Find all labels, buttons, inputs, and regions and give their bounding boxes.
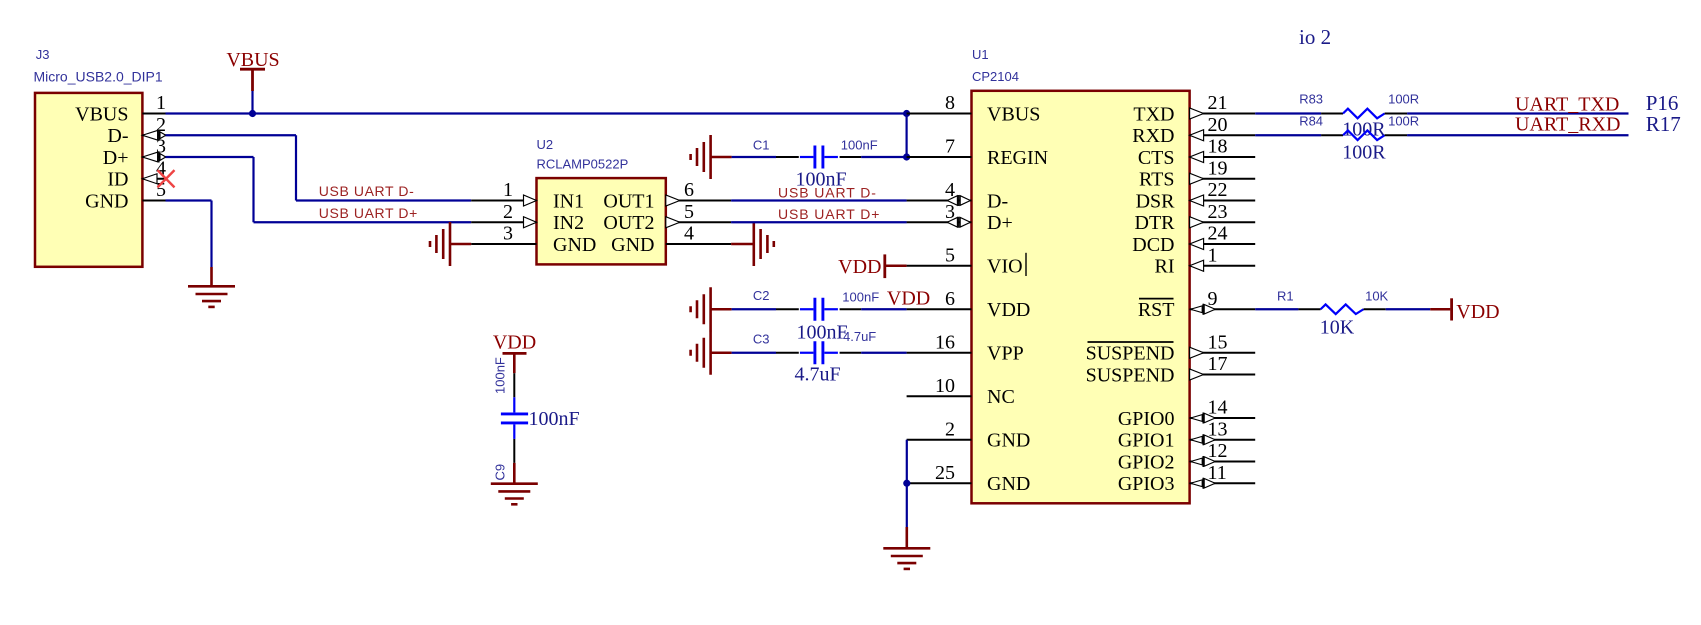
wire USB_UART_D+ U2.5 to U1.3 (731, 221, 907, 223)
svg-text:RCLAMP0522P: RCLAMP0522P (537, 157, 629, 172)
svg-text:VDD: VDD (493, 332, 536, 354)
svg-text:GND: GND (611, 234, 654, 256)
wire UART_RXD (1407, 134, 1628, 136)
power port VDD at U1 VIO (838, 254, 906, 278)
U1 pin 17 SUSPEND (1086, 353, 1256, 386)
ground symbol for C2 (709, 287, 712, 331)
U2 pin 1 IN1 (471, 179, 584, 212)
svg-text:100nF: 100nF (842, 290, 879, 305)
svg-text:100R: 100R (1388, 113, 1419, 128)
U2 pin 4 GND (611, 223, 731, 256)
U2 pin 3 GND (471, 223, 596, 256)
svg-text:2: 2 (503, 201, 513, 223)
svg-text:U1: U1 (972, 47, 989, 62)
svg-text:12: 12 (1208, 440, 1228, 462)
svg-text:SUSPEND: SUSPEND (1086, 364, 1175, 386)
svg-text:C3: C3 (753, 332, 770, 347)
svg-text:18: 18 (1208, 136, 1228, 158)
svg-text:6: 6 (684, 179, 694, 201)
junction VBUS/pin8 (903, 110, 910, 117)
ground symbol right of U2 pin4 (731, 222, 774, 266)
svg-text:GND: GND (987, 473, 1030, 495)
svg-text:ID: ID (107, 169, 128, 191)
svg-text:R1: R1 (1277, 289, 1294, 304)
svg-text:5: 5 (945, 244, 955, 266)
svg-text:C2: C2 (753, 288, 770, 303)
ground symbol below C9 (491, 463, 538, 504)
U1 pin 4 D- (907, 179, 1009, 212)
svg-text:100R: 100R (1342, 142, 1386, 164)
svg-text:VDD: VDD (887, 288, 930, 310)
U2 pin 6 OUT1 (603, 179, 731, 212)
svg-text:RXD: RXD (1132, 125, 1174, 147)
U1 pin 14 GPIO0 (1118, 397, 1255, 430)
svg-text:4: 4 (945, 179, 955, 201)
capacitor C1 (800, 146, 838, 169)
U1 pin 25 GND (907, 462, 1031, 495)
svg-text:D+: D+ (103, 147, 129, 169)
ESD protection U2 body (537, 178, 666, 264)
svg-text:19: 19 (1208, 157, 1228, 179)
U1 pin 23 DTR (1135, 201, 1256, 234)
no-connect X on J3 pin 4 (158, 170, 175, 187)
U1 pin 1 RI (1155, 244, 1256, 277)
svg-text:10K: 10K (1320, 317, 1355, 339)
U1 pin 2 GND (907, 418, 1031, 451)
text cursor artifact after VIO (1025, 253, 1027, 276)
svg-text:VDD: VDD (987, 299, 1030, 321)
svg-text:6: 6 (945, 288, 955, 310)
svg-text:15: 15 (1208, 331, 1228, 353)
power port VBUS (226, 49, 279, 91)
svg-text:VIO: VIO (987, 256, 1023, 278)
svg-text:DCD: DCD (1132, 234, 1174, 256)
svg-text:Micro_USB2.0_DIP1: Micro_USB2.0_DIP1 (34, 69, 163, 85)
svg-text:io 2: io 2 (1299, 25, 1331, 49)
U1 pin 18 CTS (1138, 136, 1255, 169)
svg-text:CP2104: CP2104 (972, 69, 1019, 84)
svg-text:R83: R83 (1299, 91, 1323, 106)
U1 pin 20 RXD (1132, 114, 1255, 147)
C9 designator (vertical) (493, 464, 508, 481)
svg-text:22: 22 (1208, 179, 1228, 201)
C9 lower pin (513, 439, 515, 463)
svg-text:OUT2: OUT2 (603, 212, 654, 234)
U1 pin 21 TXD (1133, 92, 1255, 125)
svg-text:24: 24 (1208, 223, 1228, 245)
U1 pin 5 VIO (907, 244, 1023, 277)
svg-text:USB UART D-: USB UART D- (319, 183, 415, 199)
svg-text:D-: D- (107, 125, 128, 147)
svg-text:REGIN: REGIN (987, 147, 1048, 169)
wire net D- from J3 pin2 (166, 135, 472, 200)
svg-text:9: 9 (1208, 288, 1218, 310)
ground symbol for C1 (709, 135, 712, 179)
svg-text:UART_RXD: UART_RXD (1515, 114, 1620, 136)
svg-text:3: 3 (503, 223, 513, 245)
U1 pin 19 RTS (1139, 157, 1255, 190)
wire VBUS port drop (251, 91, 253, 114)
junction at VBUS port (249, 110, 256, 117)
U1 pin 12 GPIO2 (1118, 440, 1255, 473)
svg-text:5: 5 (684, 201, 694, 223)
U1 pin 22 DSR (1136, 179, 1256, 212)
svg-text:GND: GND (85, 190, 128, 212)
resistor R1 10K (1298, 304, 1385, 314)
svg-text:VPP: VPP (987, 343, 1024, 365)
svg-text:IN1: IN1 (553, 190, 584, 212)
svg-text:7: 7 (945, 136, 955, 158)
U1 pin 24 DCD (1132, 223, 1255, 256)
wire/pins C3 row to U1 VPP (711, 351, 907, 354)
svg-text:GND: GND (553, 234, 596, 256)
svg-text:100nF: 100nF (841, 138, 878, 153)
svg-text:NC: NC (987, 386, 1015, 408)
svg-text:21: 21 (1208, 92, 1228, 114)
U1 pin 3 D+ (907, 201, 1013, 234)
ground symbol for C3 (709, 331, 712, 375)
U1 pin 16 VPP (907, 331, 1024, 364)
svg-text:14: 14 (1208, 397, 1228, 419)
J3 pin 1 VBUS (75, 92, 166, 125)
junction GND pin25 (903, 480, 910, 487)
svg-text:1: 1 (156, 92, 166, 114)
svg-text:GND: GND (987, 430, 1030, 452)
capacitor C3 (800, 341, 838, 364)
svg-text:RTS: RTS (1139, 169, 1174, 191)
svg-text:2: 2 (156, 114, 166, 136)
U1 pin 8 VBUS (907, 92, 1041, 125)
svg-text:DTR: DTR (1135, 212, 1176, 234)
svg-text:DSR: DSR (1136, 190, 1176, 212)
capacitor C2 (800, 298, 838, 321)
U1 pin 11 GPIO3 (1118, 462, 1255, 495)
svg-text:20: 20 (1208, 114, 1228, 136)
wire U1 to R84 (1255, 134, 1321, 136)
svg-text:4.7uF: 4.7uF (843, 329, 876, 344)
junction REGIN/pin7 (903, 153, 910, 160)
wire/pins C1 row to U1 REGIN (711, 156, 907, 159)
ground symbol below J3 (188, 267, 235, 307)
svg-text:100nF: 100nF (796, 169, 847, 191)
resistor R83 100R (1321, 109, 1407, 119)
svg-text:J3: J3 (36, 47, 50, 62)
svg-text:8: 8 (945, 92, 955, 114)
svg-text:100nF: 100nF (529, 408, 580, 430)
resistor R84 100R (1321, 130, 1407, 140)
svg-text:GPIO2: GPIO2 (1118, 451, 1175, 473)
svg-text:17: 17 (1208, 353, 1228, 375)
wire USB_UART_D- U2.6 to U1.4 (731, 199, 907, 201)
svg-text:16: 16 (935, 331, 955, 353)
svg-text:3: 3 (945, 201, 955, 223)
svg-text:4: 4 (684, 223, 694, 245)
svg-text:VDD: VDD (838, 256, 881, 278)
svg-text:VBUS: VBUS (987, 103, 1040, 125)
overline on RST (1139, 298, 1174, 300)
svg-text:3: 3 (156, 136, 166, 158)
svg-text:USB UART D+: USB UART D+ (778, 206, 880, 222)
svg-text:D-: D- (987, 190, 1008, 212)
svg-text:RI: RI (1155, 256, 1175, 278)
svg-text:UART_TXD: UART_TXD (1515, 94, 1619, 116)
U1 pin 7 REGIN (907, 136, 1049, 169)
connector J3 Micro_USB2.0_DIP1 body (35, 93, 142, 267)
J3 pin 4 ID (107, 157, 166, 190)
wire U1 RST to R1 (1255, 308, 1298, 310)
U1 pin 9 RST (1138, 288, 1255, 321)
svg-text:1: 1 (1208, 244, 1218, 266)
wire net D+ from J3 pin3 (166, 157, 472, 222)
IC U1 CP2104 body (972, 91, 1190, 504)
wire VDD to C9 (513, 373, 515, 397)
wire UART_TXD (1407, 112, 1628, 114)
svg-text:4.7uF: 4.7uF (795, 364, 841, 386)
svg-text:VDD: VDD (1456, 301, 1499, 323)
svg-text:10: 10 (935, 375, 955, 397)
svg-text:C1: C1 (753, 138, 770, 153)
svg-text:100nF: 100nF (797, 322, 848, 344)
power port VDD at C9 (493, 332, 536, 374)
svg-text:R17: R17 (1646, 112, 1681, 136)
svg-text:100R: 100R (1388, 91, 1419, 106)
svg-text:10K: 10K (1365, 289, 1388, 304)
svg-text:13: 13 (1208, 418, 1228, 440)
J3 pin 5 GND (85, 179, 166, 212)
svg-text:VBUS: VBUS (226, 49, 279, 71)
svg-text:GPIO1: GPIO1 (1118, 430, 1175, 452)
wire VBUS vertical to REGIN (905, 114, 907, 158)
svg-text:1: 1 (503, 179, 513, 201)
wire U1 to R83 (1255, 112, 1321, 114)
power port VDD at R1 (1430, 298, 1499, 323)
ground symbol left of U2 pin3 (430, 222, 471, 266)
svg-text:RST: RST (1138, 299, 1175, 321)
svg-text:25: 25 (935, 462, 955, 484)
svg-text:IN2: IN2 (553, 212, 584, 234)
wire R1 to VDD (1386, 308, 1431, 310)
svg-text:OUT1: OUT1 (603, 190, 654, 212)
wire U1 GND pins to ground (906, 440, 908, 527)
svg-text:C9: C9 (493, 464, 508, 481)
wire/pins C2 row to U1 VDD (711, 308, 907, 311)
wire net VBUS: J3 pin1 to U1 pin8 (166, 112, 907, 114)
svg-text:VBUS: VBUS (75, 103, 128, 125)
U2 pin 5 OUT2 (603, 201, 731, 234)
U2 pin 2 IN2 (471, 201, 584, 234)
svg-text:CTS: CTS (1138, 147, 1175, 169)
U1 pin 13 GPIO1 (1118, 418, 1255, 451)
overline on SUSPEND pin15 (1088, 341, 1174, 343)
U1 pin 15 SUSPEND (1086, 331, 1256, 364)
svg-text:SUSPEND: SUSPEND (1086, 343, 1175, 365)
svg-text:2: 2 (945, 418, 955, 440)
ground symbol below U1 (883, 527, 930, 569)
svg-text:D+: D+ (987, 212, 1013, 234)
svg-text:23: 23 (1208, 201, 1228, 223)
U1 pin 6 VDD (907, 288, 1031, 321)
svg-text:USB UART D+: USB UART D+ (319, 205, 418, 221)
C9 value 100nF (sans vertical) (493, 357, 508, 394)
U1 pin 10 NC (907, 375, 1015, 408)
J3 pin 2 D- (107, 114, 166, 147)
svg-text:R84: R84 (1299, 113, 1323, 128)
svg-text:GPIO0: GPIO0 (1118, 408, 1175, 430)
svg-text:TXD: TXD (1133, 103, 1174, 125)
J3 pin 3 D+ (103, 136, 166, 169)
svg-text:GPIO3: GPIO3 (1118, 473, 1175, 495)
svg-text:U2: U2 (537, 137, 554, 152)
svg-text:11: 11 (1208, 462, 1227, 484)
svg-text:100nF: 100nF (493, 357, 508, 394)
capacitor C9 (501, 397, 528, 439)
wire J3 GND to ground (166, 201, 212, 268)
